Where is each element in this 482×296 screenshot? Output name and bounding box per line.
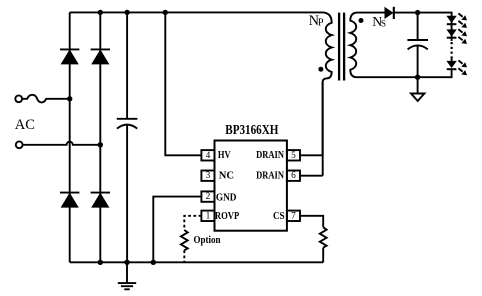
pin 1 box [201,211,214,221]
pin 6 box [287,171,300,181]
svg-text:BP3166XH: BP3166XH [225,122,279,137]
pin 5 box [287,150,300,160]
transformer T1 secondary winding [350,13,417,78]
transformer T1 primary winding [316,12,332,155]
pin 3 box [201,171,214,181]
svg-text:CS: CS [273,210,285,222]
AC terminal bottom [16,141,23,148]
node secondary top / cap [415,10,420,15]
wire secondary top to diode [358,12,385,14]
LED1 light arrows [458,13,462,16]
LED2 light arrows [458,29,462,32]
wire R-CS to rail [322,248,324,263]
transformer core lines [339,13,344,81]
wire LED string solid below dots [451,58,453,62]
pin 7 box [287,211,300,221]
ground secondary stem [417,77,419,93]
LED2 triangle [446,29,456,36]
node top rail / HV [163,10,168,15]
wire R-option dashed to rail [183,250,185,262]
LED3 bar [447,68,457,70]
capacitor C1 top plate [117,118,138,120]
node AC bottom / column2 [98,142,103,147]
capacitor C2 top plate [407,39,428,41]
svg-text:GND: GND [216,191,237,203]
svg-text:1: 1 [206,211,211,221]
LED1 triangle [446,16,456,23]
transformer secondary phase dot [359,18,364,23]
node top rail / cap [124,10,129,15]
svg-text:DRAIN: DRAIN [256,170,284,182]
node bottom rail / column2 [98,260,103,265]
svg-text:6: 6 [291,171,296,181]
svg-text:DRAIN: DRAIN [256,149,284,161]
wire drain vertical to transformer [322,82,324,176]
wire output cap bottom lead [417,45,419,77]
diode D1 top-left bar [60,48,79,50]
wire left bridge column [69,12,71,262]
wire GND to bottom rail [153,197,201,263]
wire second bridge column [99,12,101,262]
wire top rail [70,11,316,13]
diode D2 triangle [91,49,109,64]
wire LED string dotted section [451,42,453,58]
resistor R-CS zigzag [320,227,327,247]
svg-text:7: 7 [291,211,296,221]
wire output cap top lead [417,13,419,40]
fuse F1 [22,95,70,103]
diode D4 triangle [91,193,109,208]
svg-text:Option: Option [194,235,221,246]
wire CS pin7 [300,216,323,228]
svg-text:2: 2 [206,192,211,202]
svg-text:3: 3 [206,171,211,181]
IC U1 body [215,141,287,231]
wire drain pin6 [300,175,323,177]
wire input cap column lower [126,124,128,262]
node fuse / left column [67,96,72,101]
diode D3 triangle [61,193,79,208]
svg-text:HV: HV [218,149,231,161]
svg-text:P: P [318,18,324,29]
wire AC bottom with crossover hop [23,142,101,145]
wire ROVP dashed [184,216,201,230]
wire HV from top rail [165,12,201,155]
node bottom rail / GND wire [151,260,156,265]
node bottom rail / ground [124,260,129,265]
node secondary bottom / cap [415,75,420,80]
svg-text:ROVP: ROVP [215,210,240,222]
diode D5 output bar [393,7,395,19]
node top rail / column2 [98,10,103,15]
AC terminal top [15,95,22,102]
ground secondary triangle [411,94,424,101]
wire input cap column upper [126,12,128,118]
diode D1 triangle [61,49,79,64]
pin 2 box [201,191,214,201]
capacitor C2 curved plate [408,45,428,49]
diode D4 bottom-right bar [91,192,110,194]
capacitor C1 curved plate [117,125,137,129]
LED3 triangle [446,61,456,68]
svg-text:NC: NC [219,170,234,182]
LED2 bar [447,37,457,39]
ground main stem [126,262,128,283]
LED1 bar [447,23,457,25]
pin 4 box [201,150,214,160]
wire bottom rail [70,261,324,263]
diode D2 top-right bar [91,48,110,50]
wire secondary bottom to LED [418,69,452,78]
wire drain pin5 [300,154,323,156]
transformer primary phase dot [318,67,323,72]
svg-text:5: 5 [291,151,296,161]
svg-text:4: 4 [206,151,211,161]
svg-text:S: S [381,19,386,30]
diode D3 bottom-left bar [60,192,79,194]
svg-text:AC: AC [15,117,35,133]
diode D5 triangle [385,7,394,19]
resistor R-option zigzag [181,230,188,250]
ground main bars [118,283,136,289]
wire diode to LED corner [394,13,452,41]
LED3 light arrows [458,60,462,63]
